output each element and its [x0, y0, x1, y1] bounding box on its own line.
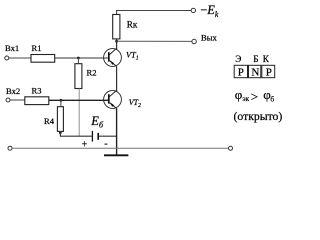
wire Rk bottom to VT1 collector [116, 39, 118, 50]
transistor VT2 [104, 90, 142, 108]
node Вых terminal [192, 33, 218, 44]
wire junction to R2 [77, 58, 79, 64]
svg-text:VT2: VT2 [129, 98, 141, 109]
svg-text:R4: R4 [44, 116, 55, 126]
ground [104, 154, 128, 156]
svg-text:VT1: VT1 [126, 51, 139, 62]
svg-text:R1: R1 [32, 43, 42, 53]
svg-text:Б: Б [253, 54, 258, 64]
resistor R4 [44, 107, 63, 132]
box N base region [249, 65, 261, 78]
node -Ek terminal [191, 3, 219, 19]
resistor Rк [113, 15, 138, 39]
svg-text:Rк: Rк [127, 19, 138, 29]
svg-text:Вх2: Вх2 [6, 86, 20, 96]
node left common terminal [8, 146, 12, 150]
wire bottom rail [12, 147, 228, 149]
node junction R4/base wire [60, 99, 63, 102]
resistor R3 [25, 86, 49, 105]
svg-text:φэк>φб: φэк>φб [235, 87, 275, 104]
wire Вх1 to R1 [9, 57, 31, 59]
svg-text:К: К [263, 54, 270, 64]
svg-text:P: P [266, 66, 272, 78]
box P emitter region [234, 65, 247, 78]
svg-text:Еб: Еб [90, 114, 104, 130]
transistor VT1 [104, 48, 139, 66]
svg-text:Вх1: Вх1 [5, 43, 19, 53]
node Вх2 input terminal [6, 86, 20, 102]
svg-text:R2: R2 [87, 67, 97, 77]
svg-text:N: N [251, 66, 259, 78]
wire R2 bottom to battery rail (gray) [78, 89, 80, 137]
wire to Вых [117, 40, 192, 42]
wire R1 to VT1 base [55, 57, 109, 59]
wire Вх2 to R3 [10, 99, 25, 101]
svg-text:R3: R3 [32, 86, 42, 96]
wire R4 to battery [60, 131, 91, 136]
resistor R1 [31, 43, 55, 62]
node right common terminal [229, 146, 233, 150]
wire junction to R4 [60, 100, 62, 106]
svg-text:Вых: Вых [201, 33, 218, 43]
wire top rail to -Ek [117, 11, 191, 15]
wire VT1 emitter to VT2 collector [116, 66, 118, 91]
node junction R2/base wire [77, 57, 80, 60]
resistor R2 [75, 64, 97, 89]
svg-text:P: P [238, 66, 244, 78]
node junction Вых [115, 40, 118, 43]
svg-text:(открыто): (открыто) [234, 110, 283, 123]
wire battery to emitter line [99, 135, 117, 137]
node junction below R4 [59, 131, 62, 134]
wire VT2 emitter to ground [116, 108, 118, 155]
battery Еб [82, 114, 108, 150]
wire R3 to VT2 base [49, 99, 109, 101]
svg-text:−Ek: −Ek [200, 3, 219, 19]
box P collector region [262, 65, 275, 78]
svg-text:Э: Э [235, 54, 241, 64]
node Вх1 input terminal [5, 43, 19, 60]
